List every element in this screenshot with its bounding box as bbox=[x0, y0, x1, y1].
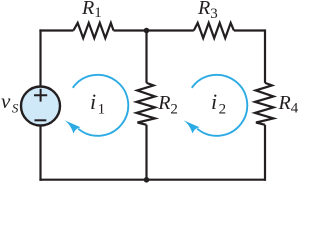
resistor R1 bbox=[73, 23, 113, 38]
svg-text:vS: vS bbox=[1, 89, 19, 116]
mesh current i2 arc bbox=[192, 75, 247, 136]
node junction dot bottom bbox=[144, 177, 150, 183]
svg-text:R1: R1 bbox=[81, 0, 102, 21]
voltage source vS bbox=[21, 87, 60, 126]
wire top-left segment bbox=[39, 29, 73, 31]
wire top-right segment bbox=[234, 29, 265, 31]
svg-text:R2: R2 bbox=[157, 92, 178, 118]
wire middle vertical upper bbox=[145, 31, 147, 83]
wire middle vertical lower bbox=[145, 125, 147, 180]
wire bottom segment bbox=[39, 179, 265, 181]
node junction dot top bbox=[144, 28, 150, 34]
svg-text:R4: R4 bbox=[278, 92, 299, 117]
wire right vertical upper bbox=[264, 29, 266, 83]
plus sign of vS bbox=[34, 89, 47, 102]
resistor R3 bbox=[194, 23, 234, 38]
wire right vertical lower bbox=[264, 125, 266, 181]
mesh current i1 arrowhead bbox=[65, 120, 81, 133]
wire left vertical lower bbox=[39, 126, 41, 181]
wire left vertical upper bbox=[39, 29, 41, 86]
svg-text:i1: i1 bbox=[90, 89, 105, 118]
mesh current i1 arc bbox=[73, 75, 128, 136]
wire top-middle segment bbox=[114, 29, 194, 31]
resistor R2 bbox=[137, 83, 156, 125]
minus sign of vS bbox=[35, 119, 47, 121]
svg-text:i2: i2 bbox=[211, 89, 226, 118]
resistor R4 bbox=[255, 83, 274, 125]
mesh current i2 arrowhead bbox=[184, 120, 200, 133]
svg-text:R3: R3 bbox=[197, 0, 218, 22]
